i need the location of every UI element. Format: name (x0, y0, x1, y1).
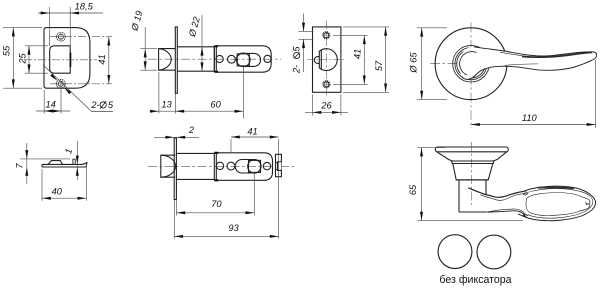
svg-text:60: 60 (210, 100, 221, 110)
lever loop dark top sliver (538, 186, 574, 189)
spindle square (bottom view) (249, 160, 261, 172)
svg-text:93: 93 (228, 223, 239, 233)
rose centerline vertical (470, 23, 472, 129)
case hole 2 (top view) (228, 55, 236, 63)
case hole 1 (bottom view) (216, 162, 223, 169)
case hole 3 (top view) (264, 55, 271, 62)
dim 110 extension line right (595, 60, 597, 128)
svg-text:18,5: 18,5 (75, 2, 94, 12)
strike screw hole bottom (323, 81, 330, 88)
svg-text:2-: 2- (292, 65, 302, 74)
dim 18,5 extension lines (48, 7, 50, 46)
hole centerline top (50, 36, 112, 38)
lever waist top edge (468, 188, 526, 198)
rose skirt side view (437, 152, 507, 161)
latch bolt (top view) (159, 49, 176, 71)
dim Ø19 extension lines (141, 48, 158, 50)
dim 41 line (faceplate holes) (108, 37, 110, 84)
svg-text:65: 65 (408, 184, 418, 195)
dim 57 extension lines (343, 26, 389, 28)
side view centerline (470, 142, 472, 205)
dim 2 line (plate thickness) (154, 136, 199, 138)
dim 14 extension lines (43, 90, 45, 114)
dim 40 extension lines (41, 169, 43, 201)
faceplate front view outline (44, 28, 90, 89)
faceplate edge-on (top view) (175, 27, 177, 93)
strike plate outline (313, 27, 341, 92)
lever (front view) outline (462, 47, 597, 80)
ornament diamond top (523, 193, 528, 196)
dim 57 line (385, 27, 387, 92)
dim 25 line (28, 46, 30, 73)
svg-text:55: 55 (2, 45, 12, 56)
dim Ø65 line (421, 28, 423, 100)
leader 2-Ø5 (faceplate holes) (43, 65, 92, 112)
faceplate screw hole top (57, 32, 66, 41)
strike latch hole (319, 49, 337, 71)
svg-text:41: 41 (247, 126, 257, 136)
svg-text:Ø 22: Ø 22 (187, 15, 202, 39)
variant circle right (477, 235, 511, 269)
svg-text:Ø 65: Ø 65 (408, 52, 418, 74)
spindle bore circle (top view) (237, 53, 251, 67)
dim 41 line (strike) (363, 35, 365, 84)
svg-text:1: 1 (63, 147, 74, 155)
lever neck side view (458, 180, 460, 212)
svg-text:Ø 19: Ø 19 (129, 10, 144, 33)
svg-text:57: 57 (374, 60, 384, 71)
lever top surface edge lines (500, 52, 526, 56)
dim 14 line (36, 110, 70, 112)
faceplate cutout centerline (24, 59, 97, 61)
dim 40 line (42, 197, 86, 199)
faceplate screw hole bottom (56, 79, 65, 88)
faceplate profile bar (42, 163, 87, 165)
rose inner rings (453, 45, 490, 82)
dim 65 extension lines (418, 147, 446, 149)
faceplate latch cutout (50, 46, 70, 73)
svg-text:70: 70 (211, 199, 222, 209)
dim 2-Ø5 extension lines (strike) (299, 30, 314, 32)
rose lower tier side view (453, 164, 493, 180)
dim 25 extension lines (25, 45, 48, 47)
dim 65 line (421, 148, 423, 221)
profile wide bump (48, 161, 63, 165)
case end piece with notch (bottom view) (276, 154, 282, 176)
dim 18,5 line (38, 12, 103, 14)
dim Ø19 line (144, 27, 146, 70)
svg-text:2-: 2- (90, 100, 99, 110)
dim 26 line (305, 111, 348, 113)
dim 70 extension lines (253, 174, 255, 216)
lever waist bottom edges (487, 209, 525, 214)
svg-text:25: 25 (17, 53, 27, 65)
svg-text:2: 2 (188, 125, 195, 135)
svg-text:41: 41 (353, 49, 363, 59)
lever neck arc (460, 52, 477, 76)
latch centerline (top view) (148, 58, 281, 60)
dim 13-60 extension lines (158, 72, 160, 114)
spindle bore circle (bottom view) (248, 160, 261, 173)
ornament diamond bottom (523, 214, 528, 217)
latch bolt (bottom view) (161, 155, 175, 177)
faceplate edge-on (bottom view) (174, 138, 176, 200)
latch case (bottom view) (216, 153, 272, 181)
case hole 3 (bottom view) (263, 162, 270, 169)
lever (front view) white body fill (459, 47, 596, 80)
strike screw hole top (323, 32, 330, 39)
svg-text:41: 41 (97, 54, 107, 64)
dim 2-Ø5 line (strike) (303, 14, 305, 32)
svg-text:26: 26 (320, 101, 332, 111)
dim 7 extension line (20, 158, 70, 160)
latch cylinder (bottom view) (176, 152, 214, 154)
lever waist rim line (480, 194, 525, 201)
rose flange side view (435, 147, 508, 152)
svg-text:13: 13 (161, 100, 172, 110)
dim 1 line (76, 141, 78, 180)
dim 7 line (26, 143, 28, 184)
svg-text:5: 5 (292, 46, 302, 52)
lever loop curl ornament (586, 198, 590, 204)
spindle square (top view) (237, 54, 249, 66)
dim 41 line (bottom view) (231, 136, 279, 138)
svg-text:без фиксатора: без фиксатора (439, 274, 511, 286)
svg-text:110: 110 (522, 113, 538, 123)
svg-text:7: 7 (14, 163, 24, 169)
dim 110 line (471, 124, 596, 126)
dim 13 and 60 line (150, 110, 244, 112)
profile narrow tab (73, 159, 75, 164)
lever loop teardrop inner (527, 193, 587, 199)
spindle slot (bottom view) (235, 160, 261, 174)
dim 41 extension lines (strike) (333, 34, 368, 36)
lever loop inner line (526, 189, 593, 219)
latch bolt edge visible in cutout (70, 53, 72, 68)
case hole 1 (top view) (216, 55, 223, 62)
lever loop outer outline (518, 186, 596, 221)
rose outer circle Ø65 (435, 28, 507, 100)
rose centerline horizontal (430, 63, 512, 65)
dim 55 extension lines (3, 27, 42, 29)
dim 70 line (176, 212, 254, 214)
svg-text:14: 14 (46, 100, 56, 110)
latch centerline (bottom view) (148, 165, 296, 167)
strike plate centerline vertical (326, 21, 328, 99)
dim Ø22 line (201, 15, 203, 71)
strike plate centerline horizontal (307, 59, 346, 61)
latch cylinder Ø22 (top view) (177, 46, 214, 48)
dim 41 extension lines (bottom view) (230, 139, 232, 152)
dim Ø65 extension lines (417, 27, 447, 29)
case hole 2 (bottom view) (227, 162, 235, 170)
dim 55 line (12, 28, 14, 89)
dim 26 extension lines (312, 95, 314, 116)
variant circle left (438, 235, 472, 269)
dim 93 line (174, 235, 278, 237)
hole centerline bottom (50, 83, 112, 85)
spindle slot (top view) (236, 53, 260, 66)
latch case (top view) (216, 46, 271, 72)
dim 93 extension lines (173, 200, 175, 239)
svg-text:5: 5 (108, 100, 114, 110)
svg-text:40: 40 (52, 187, 63, 197)
